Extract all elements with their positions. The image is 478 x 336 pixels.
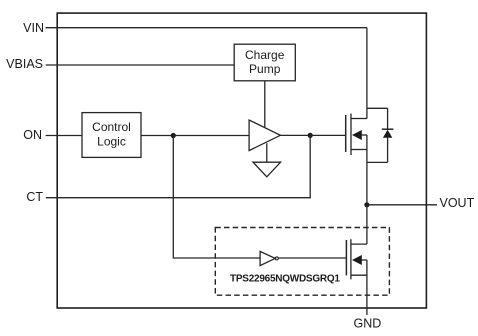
discharge MOSFET Q2 — [346, 239, 367, 279]
dashed device boundary TPS22965NQWDSGRQ1 — [215, 228, 389, 296]
wire VIN drop to pass FET drain — [366, 28, 368, 119]
svg-text:Charge: Charge — [245, 48, 285, 62]
wire node A to driver input — [173, 135, 249, 137]
wire inverter output to discharge FET gate — [278, 257, 346, 259]
wire CT to node B — [46, 135, 310, 197]
wire body diode top branch — [367, 107, 388, 109]
svg-text:VIN: VIN — [23, 21, 44, 35]
wire ON to control logic — [46, 135, 82, 137]
wire node A down to inverter input — [173, 136, 260, 259]
svg-text:Control: Control — [92, 120, 131, 134]
wire body diode bottom branch — [367, 161, 388, 163]
wire VIN horizontal — [46, 27, 367, 29]
IC outer boundary box — [57, 13, 426, 308]
svg-text:TPS22965NQWDSGRQ1: TPS22965NQWDSGRQ1 — [230, 274, 340, 285]
svg-text:ON: ON — [23, 128, 42, 142]
inverter U4 — [260, 251, 278, 265]
svg-text:Logic: Logic — [97, 134, 126, 148]
body diode D1 — [382, 108, 394, 162]
charge pump block U2 — [234, 44, 295, 81]
svg-text:VOUT: VOUT — [440, 196, 475, 210]
svg-text:GND: GND — [354, 317, 382, 331]
wire control logic to node A — [141, 135, 173, 137]
wire Q1 body/source to VOUT node — [366, 135, 368, 205]
wire charge pump output to driver — [264, 81, 266, 128]
wire driver output to node B — [280, 134, 310, 136]
wire VBIAS to charge pump — [46, 64, 235, 66]
node A junction dot — [171, 133, 176, 138]
pass MOSFET Q1 — [346, 114, 367, 156]
pull-down arrow symbol — [253, 162, 281, 177]
wire node B to pass FET gate — [310, 134, 346, 136]
svg-text:CT: CT — [26, 190, 43, 204]
wire driver pull-down stub — [266, 143, 268, 162]
node B junction dot — [308, 133, 313, 138]
wire VOUT output — [367, 204, 437, 206]
wire discharge FET source to GND — [366, 260, 368, 315]
driver buffer amplifier — [249, 120, 280, 151]
control logic block U3 — [82, 113, 141, 158]
svg-text:Pump: Pump — [249, 62, 281, 76]
svg-text:VBIAS: VBIAS — [6, 57, 43, 71]
node VOUT junction dot — [364, 202, 369, 207]
wire VOUT node down to discharge FET drain — [366, 205, 368, 244]
